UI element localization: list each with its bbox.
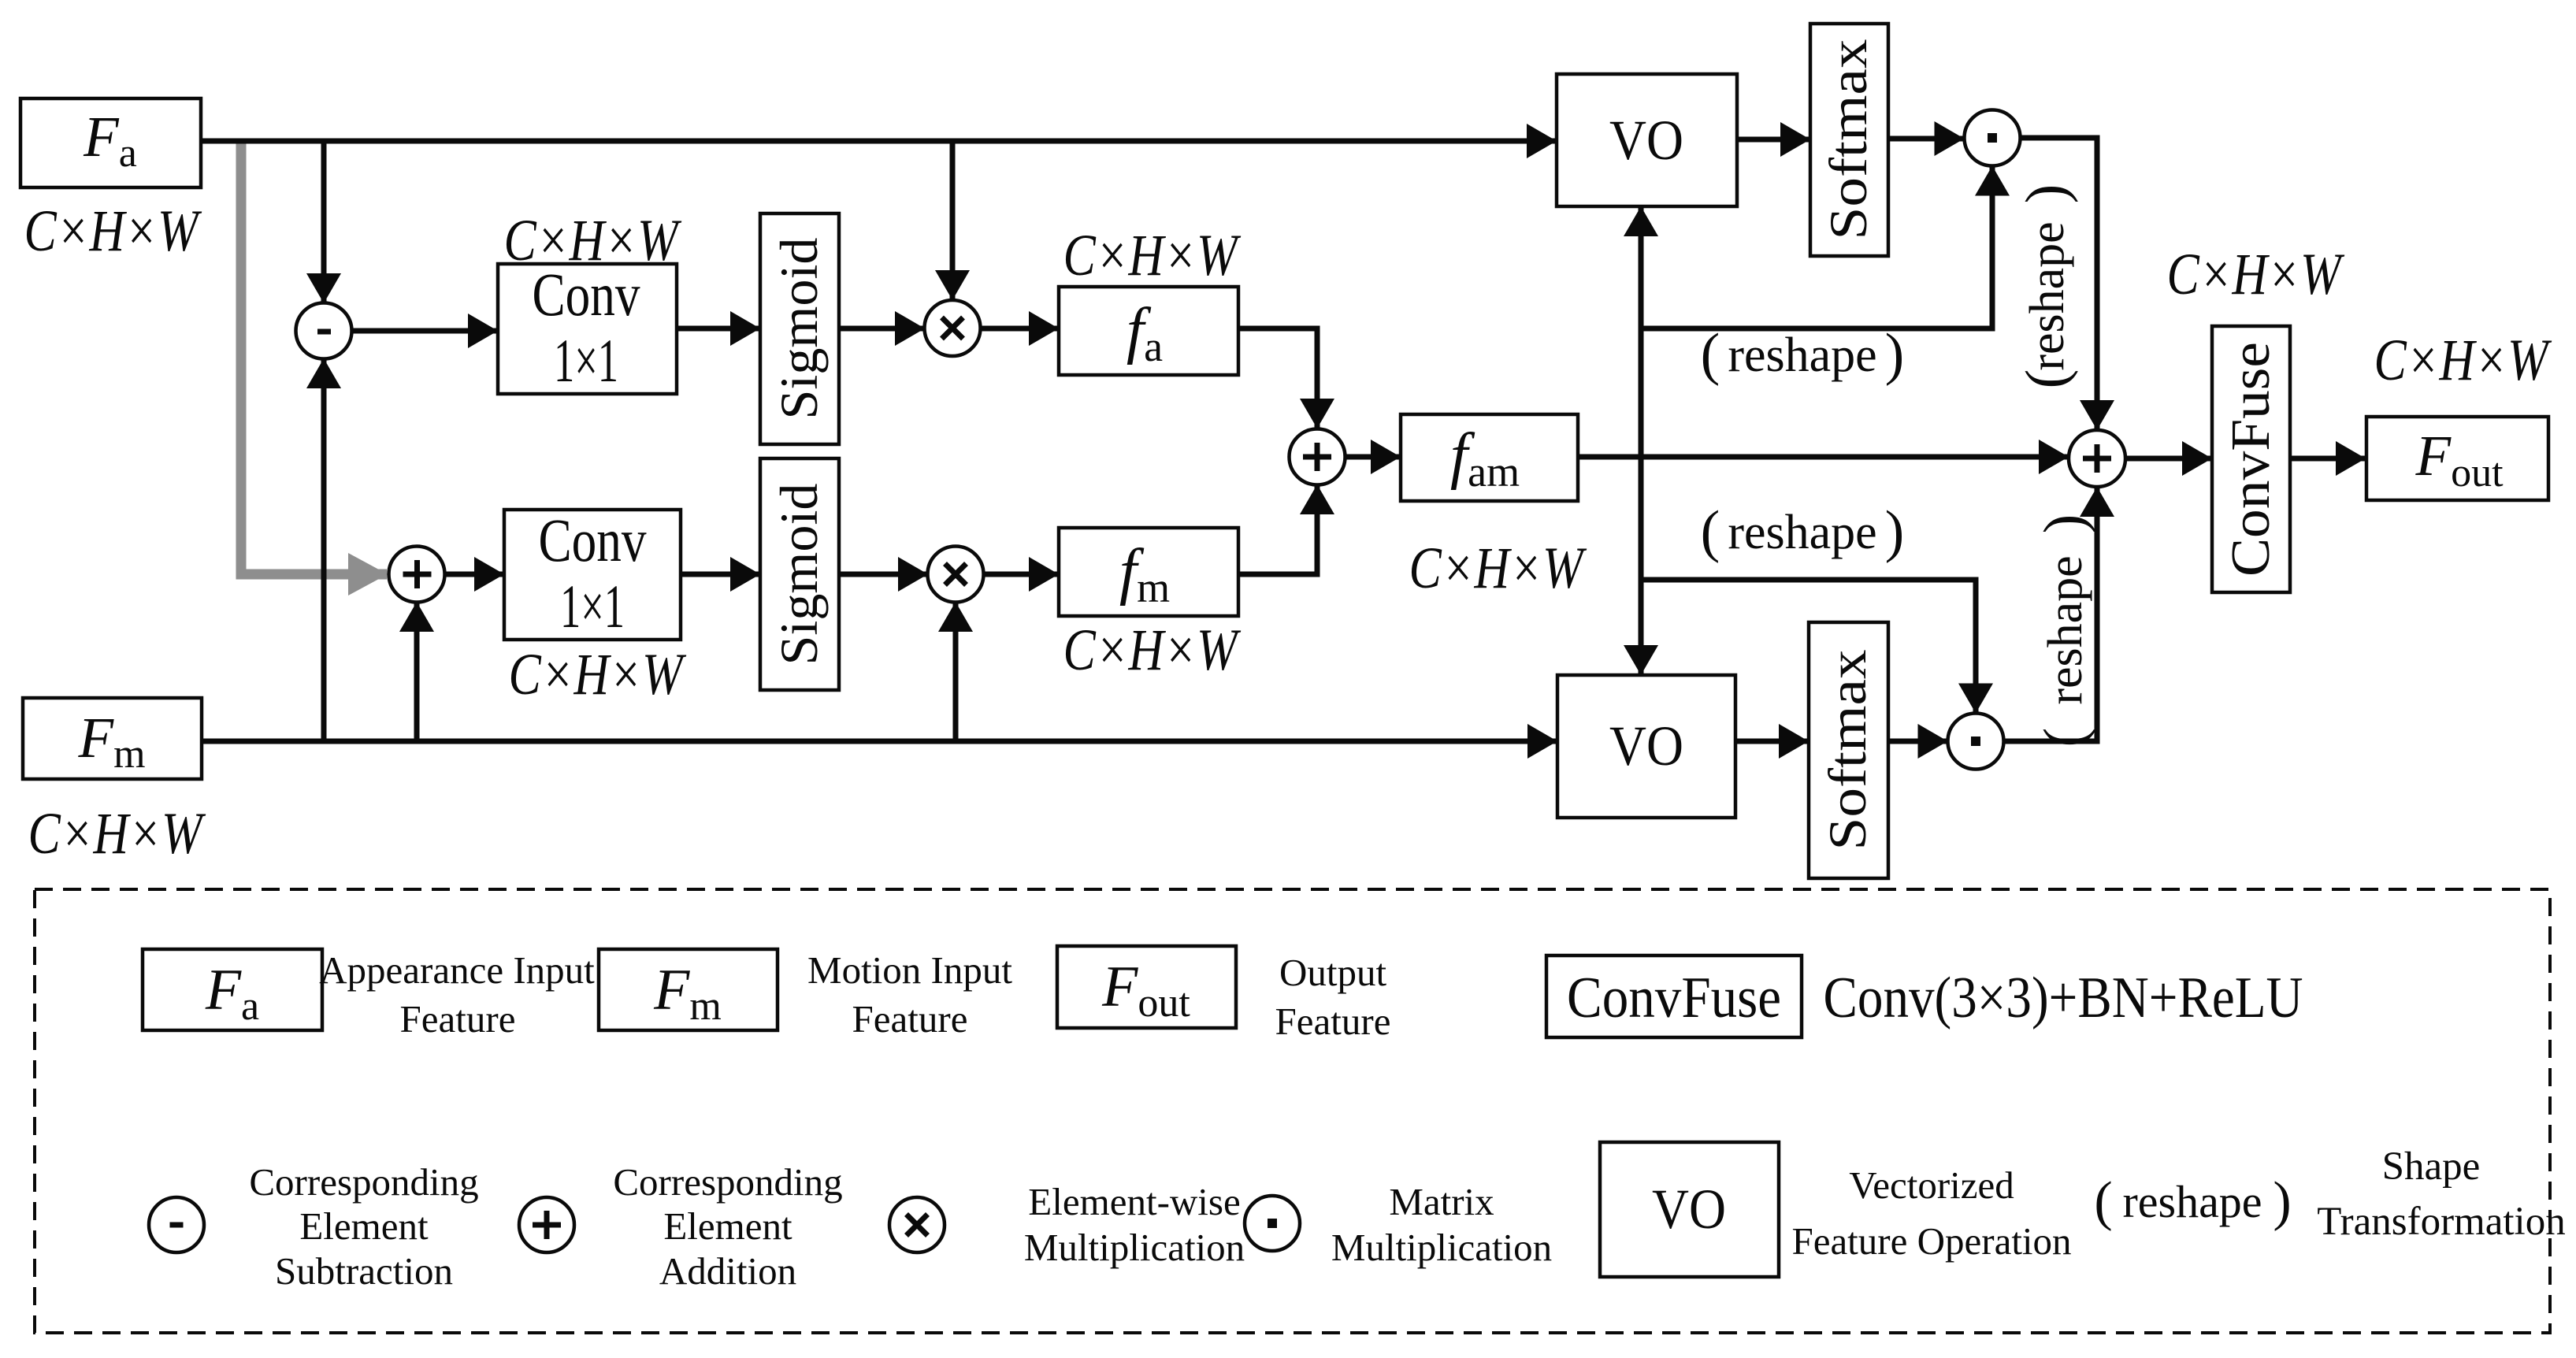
wire VO bottom to Softmax bottom (1735, 739, 1808, 744)
svg-text:Softmax: Softmax (1818, 39, 1878, 240)
wire Conv1 to Sigmoid1 (677, 326, 759, 332)
svg-text:VO: VO (1652, 1178, 1726, 1241)
svg-text:(: ( (2094, 1171, 2112, 1232)
symbol small plus sign (403, 560, 432, 588)
wire big plus to ConvFuse (2125, 456, 2211, 462)
svg-text:C×H×W: C×H×W (1409, 536, 1587, 601)
svg-text:C×H×W: C×H×W (2374, 328, 2552, 393)
box Fm (23, 698, 202, 779)
svg-text:Element: Element (663, 1204, 792, 1248)
svg-text:VO: VO (1609, 109, 1683, 172)
svg-text:Vectorized: Vectorized (1849, 1163, 2014, 1207)
node big plus circle (2069, 430, 2125, 487)
svg-text:reshape: reshape (2122, 1176, 2262, 1227)
legend plus circle (519, 1197, 574, 1252)
svg-text:Element: Element (299, 1204, 429, 1248)
box VO bottom (1557, 675, 1735, 818)
node mid plus circle (1290, 429, 1346, 485)
legend plus sign (533, 1211, 561, 1239)
box Conv2 (504, 510, 681, 640)
wire Fa branch down to minus (321, 141, 327, 302)
symbol times top sign (942, 317, 963, 339)
svg-text:Output: Output (1279, 951, 1387, 994)
wire Softmax bottom to matmul bottom (1888, 739, 1947, 744)
svg-text:Conv: Conv (533, 260, 640, 328)
svg-text:VO: VO (1609, 714, 1683, 777)
svg-text:Addition: Addition (659, 1249, 796, 1293)
box Fa (20, 98, 201, 187)
wire mid plus to fam box (1346, 455, 1401, 460)
legend dashed border (35, 889, 2550, 1333)
wire fm box to mid plus (1238, 485, 1317, 574)
svg-text:C×H×W: C×H×W (24, 199, 202, 264)
symbol minus sign (317, 329, 331, 335)
svg-text:Transformation: Transformation (2317, 1200, 2565, 1244)
wire gray Fa to plus (241, 143, 387, 574)
wire ConvFuse to Fout (2290, 456, 2365, 462)
svg-text:C×H×W: C×H×W (28, 801, 206, 866)
svg-text:(: ( (2032, 728, 2097, 748)
wire Fm branch up to small plus (414, 603, 420, 741)
svg-text:ConvFuse: ConvFuse (2221, 342, 2281, 577)
wire reshape top to matmul top (1641, 167, 1992, 329)
svg-text:reshape: reshape (2039, 555, 2092, 704)
svg-text:Motion Input: Motion Input (807, 948, 1012, 992)
node matmul top circle (1965, 110, 2021, 166)
symbol big plus sign (2083, 444, 2111, 473)
legend box ConvFuse (1546, 955, 1802, 1037)
legend times sign (907, 1215, 928, 1236)
svg-text:Shape: Shape (2382, 1145, 2481, 1189)
svg-text:): ) (2014, 184, 2079, 204)
symbol times bottom sign (945, 564, 967, 585)
wire Conv2 to Sigmoid2 (681, 572, 759, 577)
box Conv1 (498, 264, 677, 394)
wire Softmax top to matmul top (1888, 136, 1964, 142)
legend matmul circle (1245, 1196, 1300, 1251)
box fa (1059, 287, 1238, 375)
svg-text:(: ( (2014, 369, 2079, 389)
box Sigmoid2 (760, 458, 839, 690)
wire fam branch up to VO top (1639, 207, 1644, 456)
svg-text:Sigmoid: Sigmoid (769, 484, 829, 666)
svg-text:): ) (2032, 514, 2097, 534)
node matmul bottom circle (1948, 714, 2004, 770)
legend matmul dot (1268, 1219, 1277, 1228)
wire Sigmoid2 to times bottom (839, 572, 927, 577)
svg-text:C×H×W: C×H×W (1063, 223, 1242, 288)
wire Fa branch down to times top (950, 141, 956, 299)
svg-text:Element-wise: Element-wise (1028, 1180, 1240, 1223)
wire Fm branch up to times bottom (953, 603, 959, 741)
node times bottom circle (928, 547, 984, 603)
legend minus circle (149, 1197, 204, 1252)
node small plus circle (389, 547, 445, 603)
box VO top (1557, 74, 1737, 206)
svg-text:C×H×W: C×H×W (1063, 618, 1242, 683)
symbol matmul bottom dot (1971, 737, 1980, 746)
svg-text:Multiplication: Multiplication (1331, 1226, 1552, 1269)
svg-text:(reshape): (reshape) (1701, 322, 1905, 387)
legend times circle (889, 1197, 945, 1252)
svg-text:Sigmoid: Sigmoid (769, 238, 829, 420)
node minus circle (296, 303, 352, 359)
LEGEND (35, 889, 2550, 1333)
symbol mid plus sign (1303, 443, 1331, 471)
legend box Fa (143, 949, 322, 1030)
legend box Fout (1057, 946, 1236, 1028)
wire Fm branch up to minus (321, 359, 327, 741)
box fm (1059, 528, 1238, 616)
svg-text:Feature: Feature (852, 997, 968, 1041)
svg-text:): ) (2273, 1171, 2291, 1232)
wire VO top to Softmax top (1737, 137, 1810, 143)
wire Fm main line to VO bottom (202, 739, 1557, 744)
node times top circle (925, 300, 981, 356)
svg-text:Subtraction: Subtraction (275, 1249, 453, 1293)
svg-text:reshape: reshape (2021, 221, 2074, 370)
svg-text:C×H×W: C×H×W (509, 642, 687, 707)
legend minus sign (170, 1223, 184, 1228)
box Softmax bottom (1809, 622, 1888, 878)
svg-text:Feature: Feature (1275, 1000, 1391, 1043)
svg-text:Feature Operation: Feature Operation (1791, 1219, 2071, 1263)
wire matmul bottom to big plus (2004, 488, 2098, 741)
svg-text:ConvFuse: ConvFuse (1567, 966, 1781, 1030)
svg-text:1×1: 1×1 (554, 326, 618, 395)
wire Sigmoid1 to times top (839, 326, 924, 332)
svg-text:Conv(3×3)+BN+ReLU: Conv(3×3)+BN+ReLU (1824, 966, 2303, 1030)
svg-text:Corresponding: Corresponding (249, 1160, 478, 1204)
svg-text:Multiplication: Multiplication (1024, 1226, 1245, 1269)
wire Fa main line to VO top (201, 139, 1556, 144)
svg-text:Conv: Conv (539, 506, 647, 574)
svg-text:Appearance Input: Appearance Input (319, 948, 595, 992)
svg-text:Softmax: Softmax (1817, 650, 1877, 851)
svg-text:C×H×W: C×H×W (2167, 242, 2345, 307)
wire times bottom to fm box (983, 572, 1058, 577)
svg-text:Matrix: Matrix (1389, 1180, 1494, 1223)
wire matmul top to big plus (2021, 138, 2098, 429)
svg-text:1×1: 1×1 (560, 572, 625, 640)
box Fout (2366, 417, 2548, 500)
wire fa box to mid plus (1238, 328, 1317, 428)
box fam (1401, 414, 1578, 501)
wire fam branch down to VO bottom (1639, 456, 1644, 674)
box Softmax top (1810, 24, 1888, 256)
wire reshape bottom to matmul bottom (1641, 580, 1976, 713)
svg-text:Feature: Feature (400, 997, 516, 1041)
wire times top to fa box (980, 326, 1058, 332)
box ConvFuse (2212, 326, 2290, 592)
wire minus to Conv1 (352, 328, 498, 334)
wire small plus to Conv2 (444, 572, 503, 577)
legend box Fm (599, 949, 778, 1030)
box Sigmoid1 (760, 213, 839, 444)
svg-text:(reshape): (reshape) (1701, 499, 1905, 564)
wire fam box to big plus (1578, 455, 2068, 460)
legend box VO (1600, 1142, 1779, 1277)
symbol matmul top dot (1988, 133, 1997, 143)
svg-text:Corresponding: Corresponding (613, 1160, 842, 1204)
